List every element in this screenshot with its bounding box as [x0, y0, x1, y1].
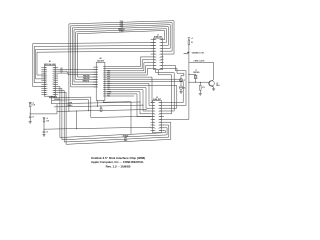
wire bus WRREQ drop to U2 — [76, 32, 97, 80]
IC A1 right pin 15 — [52, 92, 58, 94]
node label RD5 — [107, 77, 110, 79]
wire U2 to J2 left — [107, 88, 151, 109]
connector J2 right pin 13 — [158, 127, 164, 129]
wire bus ENBL — [77, 31, 164, 40]
node label STRB — [107, 91, 112, 93]
capacitor C2 — [43, 129, 48, 133]
connector J2 outline — [153, 101, 162, 133]
IC A1 left pin 3 — [41, 71, 47, 73]
node label net — [83, 80, 90, 83]
connector J1 left pin 5 — [151, 51, 157, 53]
node label RDDATA — [54, 98, 61, 101]
IC A1 right pin 25 — [52, 73, 58, 75]
wire address line 2 — [36, 48, 154, 79]
node label RD6 — [107, 79, 110, 81]
connector J2 left pin 5 — [151, 113, 156, 115]
wire J1 to U2 — [107, 68, 151, 75]
connector J2 left pin 10 — [151, 127, 156, 129]
IC A1 right pin 23 — [52, 77, 58, 79]
node label 2 MHZ CLK — [194, 60, 206, 62]
svg-text:C1: C1 — [32, 116, 34, 118]
node label CSTIN — [68, 102, 73, 104]
IC A1 left pin 8 — [41, 80, 47, 82]
wire bus ENBL drop to U2 — [77, 34, 96, 77]
connector J1 left pin 3 — [151, 45, 157, 47]
node label net — [83, 77, 90, 80]
IC A2 outline — [96, 62, 105, 100]
node label WRREQ — [118, 29, 125, 31]
connector J1 left pin 10 — [151, 65, 157, 67]
IC A1 right pin 17 — [52, 88, 58, 90]
node label RD2 — [107, 70, 110, 72]
IC A1 right pin 28 — [52, 67, 58, 69]
wire bus PH1 drop to U2 — [71, 26, 97, 87]
wire A1 to U2 data — [58, 68, 96, 70]
connector J2 left pin 8 — [151, 122, 156, 124]
crystal Y1 — [188, 74, 197, 82]
svg-text:Y1: Y1 — [195, 70, 197, 72]
svg-text:Rev. 1.2 -- 10/9/85: Rev. 1.2 -- 10/9/85 — [106, 164, 131, 168]
svg-text:Q1: Q1 — [216, 83, 218, 85]
node label ENB — [107, 93, 111, 95]
connector J2 right pin 21 — [158, 105, 164, 107]
wire oscillator top rail — [189, 63, 214, 80]
IC A1 left pin 4 — [41, 72, 47, 75]
transistor Q1 label — [216, 83, 219, 87]
wire U2 to J2 left — [107, 77, 152, 103]
IC A1 IWM outline — [44, 65, 55, 96]
wire mid L1 — [52, 102, 141, 104]
svg-text:3.3K: 3.3K — [46, 120, 49, 122]
wire A1 lower pin to bottom bus — [58, 89, 62, 140]
IC A1 left pin 1 — [41, 67, 47, 69]
wire A1 lower pin to bottom bus — [58, 87, 60, 138]
IC A1 right pin 27 — [52, 69, 58, 71]
svg-text:IWM 344-0041: IWM 344-0041 — [44, 63, 56, 66]
connector J1 left pin 9 — [151, 62, 157, 64]
IC A1 right pin 14 — [52, 93, 58, 96]
wire feedback to J2 — [164, 118, 189, 120]
wire bus WRREQ — [76, 29, 167, 43]
ground below Q1 — [212, 89, 215, 91]
node label RD4 — [107, 74, 110, 77]
IC A2 value label — [97, 59, 104, 62]
IC A1 right pin 22 — [52, 78, 58, 80]
wire A1 bottom pin WRDATA to L4 — [49, 96, 152, 117]
wire R5 node — [44, 122, 45, 130]
IC A2 right pin 5 — [103, 74, 106, 76]
IC A1 left pin 6 — [41, 77, 47, 79]
connector J2 right pin 15 — [158, 122, 164, 124]
node label DR2 — [124, 138, 127, 140]
wire base node — [188, 82, 209, 83]
svg-text:Unidisk 3.5” Disk Interface Ch: Unidisk 3.5” Disk Interface Chip (IWM) — [91, 156, 145, 160]
wire A1 bottom pin RDDATA — [51, 96, 53, 104]
wire address line 3 — [37, 51, 154, 75]
resistor R5 — [43, 118, 49, 123]
svg-text:C8: C8 — [183, 87, 185, 89]
svg-text:2 MHZ CLOCK: 2 MHZ CLOCK — [194, 60, 206, 62]
IC A1 right pin 24 — [52, 74, 58, 77]
IC A2 right pin 3 — [103, 70, 106, 72]
node flag arrow — [184, 52, 189, 54]
svg-text:D2: D2 — [61, 72, 63, 74]
node label CKO — [107, 83, 111, 85]
wire L3 branch down to L5 — [76, 111, 77, 130]
power +5V tap R5 — [43, 118, 48, 120]
svg-text:+5: +5 — [191, 38, 193, 40]
IC A1 right pin 21 — [52, 80, 58, 82]
IC A2 left pin stub 3 — [93, 71, 98, 73]
resistor R4 — [29, 102, 35, 106]
IC A2 right pin 15 — [103, 95, 106, 97]
wire J1 to U2 — [107, 57, 151, 67]
wire R1 down — [188, 45, 190, 63]
wire bus PH2 drop to U2 — [72, 28, 96, 85]
node label GND — [124, 140, 128, 142]
IC A2 right pin 4 — [103, 72, 106, 74]
node label ENBL2 — [67, 105, 72, 107]
svg-text:MTRON: MTRON — [123, 135, 129, 137]
wire below CR2 — [179, 89, 182, 93]
wire U2 r7 to CR column — [107, 79, 182, 80]
wire U2 r8 to J2 right row1 — [107, 81, 184, 102]
crystal Y1 label — [193, 70, 199, 74]
transistor Q1 — [209, 80, 215, 89]
connector J1 refdes — [157, 34, 159, 36]
wire A2 bottom pin to L2 — [97, 101, 99, 107]
IC A1 left pin 9 — [41, 82, 47, 84]
connector J2 right pin 16 — [158, 119, 164, 121]
connector J2 left pin 2 — [151, 105, 156, 107]
svg-text:DISK INT: DISK INT — [153, 99, 162, 101]
wire U2 to J2 left — [107, 94, 151, 117]
svg-text:+5: +5 — [32, 102, 34, 104]
connector J2 left pin 11 — [151, 130, 156, 132]
svg-text:C7: C7 — [183, 80, 185, 82]
connector J1 right pin 16 — [159, 56, 163, 58]
wire address line 1 — [34, 45, 153, 82]
wire oscillator left rail — [188, 63, 190, 120]
connector J1 right pin 20 — [159, 45, 163, 47]
svg-text:CSTIN: CSTIN — [68, 102, 73, 104]
connector J1 left pin 4 — [151, 47, 157, 50]
connector J1 left pin 1 — [151, 39, 157, 41]
wire bus PH3 drop to U2 — [74, 30, 96, 82]
wire CR1 to CR2 — [180, 82, 182, 86]
IC A2 left pin stub 9 — [93, 86, 98, 88]
wire bus PH2 — [72, 25, 170, 49]
connector J2 right pin 14 — [158, 124, 164, 127]
wire bottom bus RDSEL — [60, 131, 165, 138]
IC A1 left pin 10 — [41, 84, 48, 86]
connector J2 left pin 7 — [151, 119, 156, 121]
svg-text:CER RES: CER RES — [193, 72, 199, 74]
IC A2 left pin stub 8 — [93, 84, 98, 86]
IC A2 right pin 14 — [103, 93, 106, 95]
IC A2 right pin 13 — [103, 91, 106, 93]
connector J1 right pin 13 — [159, 65, 163, 67]
wire R5 line L5 — [44, 127, 153, 129]
wire U2 r10 to J2 right row3 — [107, 86, 177, 109]
node label PH1 — [120, 23, 123, 25]
wire A1 to U2 data — [58, 70, 96, 73]
wire J1 to J2 via right — [164, 66, 186, 106]
node label CA0 — [107, 84, 110, 87]
wire J1 bottom pin to J2 — [156, 70, 175, 111]
connector J1 left pin 8 — [151, 59, 157, 61]
node label UNIDISK 3.5 — [192, 53, 205, 55]
node label net — [61, 70, 63, 72]
wire U2 to J2 left — [107, 83, 151, 105]
connector J1 right pin 21 — [159, 42, 163, 44]
wire bottom bus DR2 — [64, 125, 169, 142]
connector J1 left pin 6 — [151, 54, 157, 56]
IC A2 left pin stub 6 — [93, 79, 98, 81]
connector J2 right pin 19 — [158, 111, 164, 113]
node label CA2 — [107, 88, 110, 91]
title line 2 — [91, 160, 144, 164]
node label WRDATA — [50, 96, 57, 99]
IC A2 right pin 1 — [103, 66, 106, 68]
wire address line 0 — [33, 43, 154, 87]
IC A1 left pin 5 — [41, 75, 47, 77]
IC A1 left pin 12 — [41, 88, 48, 90]
node label ENBL — [119, 31, 125, 33]
resistor R1 — [188, 38, 194, 45]
connector J2 right pin 17 — [158, 116, 164, 118]
wire bus PH0 drop to mid node — [68, 24, 70, 112]
connector J2 left pin 6 — [151, 116, 156, 118]
IC A2 left pin stub 7 — [93, 81, 98, 83]
IC A1 left pin 2 — [41, 69, 47, 71]
wire mid L3 — [57, 104, 147, 112]
svg-text:D1: D1 — [61, 70, 63, 72]
IC A2 left pin stub 5 — [93, 76, 98, 78]
title line 3 — [106, 164, 131, 168]
connector J1 left pin 2 — [151, 42, 157, 44]
node label RD3 — [107, 72, 110, 74]
wire A1 lower pin to bottom bus — [58, 90, 64, 142]
IC A2 right pin 6 — [103, 76, 106, 78]
wire J1 to CR column — [164, 68, 184, 75]
wire bus PH1 — [71, 23, 173, 51]
IC A2 right pin 11 — [103, 87, 106, 89]
node label CA1 — [107, 86, 110, 89]
IC A1 right pin 26 — [52, 71, 58, 73]
connector J2 right pin 22 — [158, 102, 164, 104]
svg-text:D0: D0 — [61, 68, 63, 70]
node label MTRON — [123, 135, 129, 137]
resistor R2 — [200, 82, 205, 90]
power +5V tap oscillator — [188, 38, 193, 40]
connector J1 left pin 11 — [151, 68, 157, 70]
connector J2 refdes — [156, 97, 158, 99]
connector J2 name — [153, 99, 162, 101]
power +5V tap R4 — [29, 102, 34, 104]
wire bus PH3 — [74, 27, 168, 46]
wire U2 r15 — [107, 95, 134, 97]
connector J1 right pin 12 — [159, 68, 163, 70]
wire bottom bus GND — [66, 122, 171, 144]
connector J1 right pin 15 — [159, 59, 163, 61]
wire bus PH0 — [69, 21, 174, 54]
svg-text:R3: R3 — [100, 107, 102, 109]
resistor R3 pullup — [100, 107, 102, 112]
IC A1 refdes — [49, 60, 51, 63]
connector J1 name — [154, 36, 163, 38]
wire U2 to J2 left — [107, 92, 151, 114]
connector J2 left pin 9 — [151, 125, 156, 127]
diode CR2 — [179, 86, 185, 89]
connector J2 left pin 1 — [151, 102, 156, 104]
IC A2 right pin 2 — [103, 68, 106, 70]
connector J1 right pin 17 — [159, 54, 163, 56]
IC A1 left pin 11 — [41, 86, 48, 88]
svg-text:DR2: DR2 — [124, 138, 127, 140]
title line 1 — [91, 156, 145, 160]
IC A1 left pin 7 — [41, 78, 47, 80]
IC A2 left pin stub 1 — [93, 66, 98, 68]
wire bottom bus MTRON — [62, 128, 167, 140]
connector J2 left pin 4 — [151, 110, 156, 113]
IC A2 right pin 8 — [103, 80, 106, 82]
node label PH2 — [120, 25, 123, 27]
IC A2 left pin stub 4 — [93, 74, 98, 76]
node label net — [61, 68, 63, 70]
node label RD7 — [107, 81, 110, 83]
IC A2 refdes — [100, 57, 102, 60]
IC A1 right pin 16 — [52, 90, 58, 92]
IC A1 right pin 18 — [52, 86, 58, 88]
node label net — [83, 75, 90, 78]
wire mid L2 — [54, 105, 144, 107]
svg-text:+5: +5 — [46, 118, 48, 120]
ground below R2 — [199, 90, 202, 95]
wire J1 to U2 — [107, 60, 151, 69]
svg-text:DISK EXT: DISK EXT — [154, 36, 163, 38]
IC A1 left pin 15 — [41, 94, 48, 96]
node label PH0 — [120, 21, 123, 23]
connector J1 right pin 14 — [159, 61, 163, 64]
connector J1 right pin 18 — [159, 51, 163, 53]
connector J1 right pin 19 — [159, 48, 163, 50]
ground below C2 — [42, 133, 45, 137]
wire J1 to U2 — [107, 63, 151, 71]
wire CR column — [180, 76, 182, 79]
capacitor C1 — [29, 114, 34, 119]
IC A1 right pin 20 — [52, 82, 58, 84]
wire J1 bottom pin 2 to J2 — [158, 70, 171, 114]
IC A1 right pin 19 — [52, 84, 58, 86]
IC A1 left pin 14 — [41, 91, 48, 94]
ground below C1 — [29, 118, 32, 124]
connector J1 outline — [154, 38, 163, 70]
node label net — [61, 72, 63, 74]
wire R4 node — [30, 106, 57, 114]
connector J2 right pin 12 — [158, 130, 164, 132]
IC A1 left pin 13 — [41, 90, 48, 92]
IC A2 right pin 7 — [103, 78, 106, 80]
svg-text:ENBL2: ENBL2 — [67, 105, 72, 107]
IC A2 right pin 12 — [103, 89, 106, 91]
IC A2 right pin 10 — [103, 85, 106, 87]
IC A1 value label IWM 344-0041 — [44, 63, 56, 66]
wire A2 bottom corner wire — [103, 101, 131, 135]
wire J1 to U2 — [107, 66, 151, 73]
svg-text:3.3K: 3.3K — [32, 105, 35, 107]
IC A2 left pin stub 2 — [93, 69, 98, 71]
connector J2 left pin 3 — [151, 108, 156, 110]
svg-text:UNIDISK 3.5 IN: UNIDISK 3.5 IN — [192, 53, 205, 55]
IC A2 right pin 9 — [103, 82, 106, 84]
connector J2 right pin 18 — [158, 113, 164, 115]
wire U2 to J2 left — [107, 90, 151, 111]
wire A1 to U2 data — [58, 73, 96, 75]
connector J1 right pin 22 — [159, 39, 163, 41]
connector J1 left pin 7 — [151, 56, 157, 58]
diode CR1 — [179, 79, 185, 82]
connector J2 right pin 20 — [158, 108, 164, 110]
node label SEL — [107, 96, 110, 98]
wire A1 lower pin to bottom bus — [58, 92, 66, 144]
svg-text:C2: C2 — [46, 132, 48, 134]
svg-text:343-0019: 343-0019 — [97, 59, 104, 62]
node label PH3 — [120, 27, 123, 29]
